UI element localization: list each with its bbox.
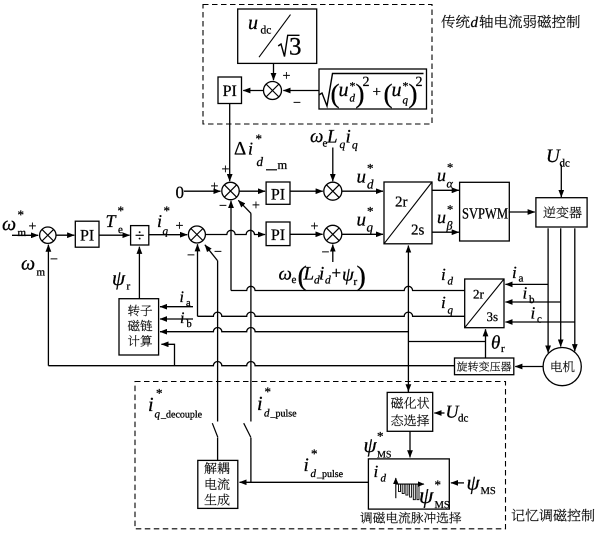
block PI field weakening (218, 77, 242, 104)
wire phase c down to motor (574, 228, 576, 351)
svg-text:+: + (222, 163, 230, 178)
svg-text:m: m (278, 158, 288, 172)
wire sum to PI speed (56, 234, 74, 236)
wire theta to flux calc row (160, 328, 408, 332)
wire feedforward wLdid into uq sum (332, 245, 334, 263)
svg-text:i: i (531, 304, 536, 323)
svg-text:2r: 2r (395, 195, 408, 211)
svg-text:+: + (29, 220, 37, 235)
svg-text:_decouple: _decouple (160, 410, 203, 421)
svg-text:r: r (501, 343, 505, 355)
block PI speed (75, 221, 99, 247)
svg-text:*: * (447, 161, 453, 175)
svg-text:u: u (357, 167, 367, 188)
svg-text:i: i (248, 139, 253, 159)
block 2r/3s transform (465, 279, 504, 328)
svg-text:−: − (293, 96, 301, 111)
block PI d (266, 182, 290, 204)
svg-text:θ: θ (491, 333, 500, 354)
wire sqrt box to sum (283, 90, 319, 92)
label: traditional d-axis current field weakening control (441, 15, 469, 28)
wire ualpha (432, 189, 459, 191)
svg-text:PI: PI (223, 83, 237, 100)
wire speed feedback up (47, 245, 49, 366)
svg-text:−: − (50, 253, 58, 268)
svg-text:a: a (186, 298, 191, 309)
motor circle (543, 348, 581, 386)
svg-text:d: d (325, 275, 331, 287)
svg-text:T: T (106, 211, 118, 231)
wire phase b down to motor (560, 228, 562, 346)
svg-text:*: * (118, 203, 125, 218)
wire uq sum to 2r2s (342, 233, 383, 235)
block SVPWM (460, 182, 510, 241)
pulse waveform (395, 478, 397, 498)
svg-text:dc: dc (261, 25, 272, 37)
wire iq_decouple riser and switch (217, 261, 219, 422)
svg-text:i: i (180, 310, 184, 327)
svg-text:i: i (441, 293, 446, 312)
svg-text:+: + (176, 219, 184, 234)
wire PI d to sum ud (290, 190, 323, 192)
wire psi_r up to divide (138, 247, 140, 299)
dashed box: memory flux control (135, 382, 506, 529)
label flux-regulating current pulse selection (360, 512, 461, 524)
svg-text:α: α (447, 177, 454, 191)
wire iq feedback up into q sum (197, 244, 199, 316)
svg-text:u: u (339, 79, 349, 101)
summing junction speed (40, 227, 56, 243)
svg-text:MS: MS (481, 486, 496, 497)
wire ia tap to 2r3s (505, 283, 548, 285)
svg-text:i: i (257, 393, 263, 415)
svg-text:u: u (357, 210, 367, 231)
svg-text:ω: ω (21, 253, 35, 275)
svg-text:2: 2 (363, 75, 370, 90)
svg-text:u: u (392, 79, 402, 101)
svg-text:e: e (292, 274, 297, 286)
svg-text:_pulse: _pulse (270, 409, 298, 420)
svg-text:2: 2 (416, 75, 423, 90)
wire weLqiq down into ud sum (332, 148, 334, 182)
block udc/sqrt3 (238, 9, 317, 63)
svg-text:*: * (367, 161, 374, 176)
svg-text:e: e (118, 224, 123, 236)
svg-text:u: u (248, 12, 258, 34)
label memory flux control (512, 509, 594, 522)
svg-text:β: β (446, 219, 453, 233)
block flux-regulating pulse selection (368, 459, 449, 509)
svg-text:r: r (127, 281, 131, 293)
svg-text:b: b (187, 319, 192, 330)
svg-text:−: − (219, 199, 227, 214)
summing junction d current (222, 182, 239, 199)
wire ib stub into flux calc (160, 318, 193, 320)
svg-text:*: * (256, 131, 263, 146)
summing junction uq (324, 225, 342, 243)
svg-text:d: d (367, 177, 374, 192)
wire omega branch into flux calc (161, 344, 174, 365)
wire mag state to pulse box (409, 431, 411, 457)
svg-text:3s: 3s (487, 309, 499, 324)
svg-text:m: m (18, 227, 27, 239)
wire PI down to d-axis sum, delta id_m (229, 104, 231, 182)
svg-text:i: i (319, 264, 324, 285)
wire motor to resolver (515, 366, 543, 368)
svg-text:2r: 2r (473, 286, 485, 301)
wire PI to divide (99, 234, 130, 236)
svg-text:+: + (311, 220, 319, 235)
svg-text:*: * (377, 429, 384, 444)
wire speed ref in (12, 234, 38, 236)
wire theta into 2r2s bottom and down to mag-state box (407, 246, 409, 393)
svg-text:u: u (437, 207, 446, 227)
block decouple current generation (198, 460, 238, 508)
wire Udc into mag state box (434, 412, 444, 414)
svg-text:MS: MS (435, 500, 450, 511)
summing junction q current (188, 226, 205, 243)
svg-text:i: i (523, 284, 528, 303)
svg-text:PI: PI (271, 227, 285, 244)
svg-text:i: i (180, 289, 184, 306)
summing junction field weakening (264, 82, 282, 100)
svg-text:ω: ω (310, 126, 323, 147)
svg-text:m: m (37, 267, 46, 279)
svg-text:i: i (157, 211, 162, 231)
wire psi_MS into pulse box (451, 482, 464, 484)
wire udc/sqrt3 to sum (273, 63, 275, 80)
svg-text:*: * (435, 477, 442, 492)
svg-text:*: * (156, 386, 163, 401)
block resolver (455, 358, 514, 375)
block magnetization state selection (387, 392, 433, 431)
wire id_pulse diagonal into d sum (238, 200, 251, 213)
block inverter (536, 198, 587, 227)
wire divide to q sum (149, 234, 187, 236)
svg-text:i: i (374, 462, 379, 481)
svg-text:q: q (155, 409, 161, 421)
svg-text:d: d (448, 276, 454, 288)
svg-text:ω: ω (2, 213, 16, 235)
svg-text:): ) (357, 261, 366, 292)
wire sum to PI (243, 90, 263, 92)
wire ia stub into flux calc (160, 306, 193, 308)
svg-text:q: q (448, 305, 454, 317)
svg-text:2s: 2s (411, 223, 425, 239)
wire iq feedback row (198, 312, 465, 316)
wire ib tap to 2r3s (505, 301, 560, 303)
svg-text:i: i (148, 394, 154, 416)
svg-text:−: − (322, 246, 330, 261)
svg-text:_pulse: _pulse (316, 469, 344, 480)
svg-text:+: + (332, 264, 342, 283)
svg-text:i: i (441, 265, 446, 284)
svg-text:*: * (164, 203, 171, 218)
block 2r/2s transform (384, 182, 432, 244)
svg-text:ω: ω (279, 264, 292, 285)
wire PI q to sum uq (290, 233, 323, 235)
wire id feedback up into d sum (230, 201, 232, 291)
svg-text:i: i (304, 455, 309, 476)
svg-text:i: i (346, 127, 351, 148)
svg-text:*: * (367, 204, 374, 219)
svg-text:d: d (264, 408, 270, 420)
svg-text:c: c (537, 314, 542, 326)
svg-text:q: q (367, 220, 374, 235)
svg-text:ψ: ψ (467, 471, 481, 495)
svg-text:ψ: ψ (364, 433, 378, 457)
wire ubeta (432, 231, 459, 233)
svg-text:+: + (211, 180, 219, 195)
wire q sum to PI q, hops (205, 230, 265, 234)
svg-text:L: L (326, 127, 338, 148)
svg-text:PI: PI (271, 186, 285, 203)
svg-text:÷: ÷ (135, 226, 144, 245)
svg-text:0: 0 (176, 183, 185, 202)
wire id feedback row (231, 286, 465, 290)
svg-text:d: d (471, 15, 479, 31)
svg-text:d: d (381, 473, 387, 485)
svg-text:−: − (187, 249, 195, 264)
svg-text:dc: dc (458, 413, 469, 425)
svg-text:+: + (252, 199, 260, 214)
svg-text:d: d (311, 468, 317, 480)
svg-text:ψ: ψ (112, 266, 126, 290)
wire ud sum to 2r2s (342, 190, 383, 192)
wire theta jog to vertical (408, 341, 485, 343)
wire theta_r resolver to 2r3s (485, 329, 487, 358)
svg-text:+: + (283, 69, 291, 84)
svg-text:u: u (437, 165, 446, 185)
wire Udc into inverter (560, 165, 562, 198)
block divide (131, 226, 149, 245)
svg-text:d: d (257, 154, 264, 169)
svg-text:q: q (163, 226, 169, 238)
block PI q (266, 222, 290, 246)
svg-text:*: * (265, 384, 272, 399)
svg-text:*: * (447, 203, 453, 217)
svg-text:*: * (311, 446, 318, 461)
wire iq_decouple diagonal into q sum (205, 245, 218, 261)
svg-text:SVPWM: SVPWM (462, 206, 508, 223)
wire d sum to PI d (239, 190, 265, 192)
block sqrt(ud^2+uq^2) (319, 69, 427, 109)
wire SVPWM to inverter (509, 211, 535, 213)
dashed box: traditional d-axis field-weakening control (203, 5, 432, 125)
block rotor flux calculation (119, 299, 159, 355)
svg-text:*: * (18, 207, 25, 222)
wire ic tap to 2r3s (505, 321, 574, 323)
svg-text:q: q (352, 140, 358, 152)
wire 0 to d sum (184, 190, 221, 192)
svg-text:PI: PI (80, 228, 94, 245)
svg-text:L: L (303, 264, 315, 285)
wire id_pulse riser and switch (250, 213, 252, 421)
wire omega feedback row (48, 362, 454, 366)
svg-text:ψ: ψ (419, 483, 434, 508)
svg-text:+: + (373, 85, 381, 101)
svg-text:Δ: Δ (234, 139, 246, 160)
wire id_pulse to decouple box (240, 481, 369, 483)
summing junction ud (324, 182, 342, 200)
svg-text:3: 3 (289, 34, 302, 61)
svg-text:i: i (512, 263, 517, 282)
wire phase a down to motor (547, 228, 549, 352)
